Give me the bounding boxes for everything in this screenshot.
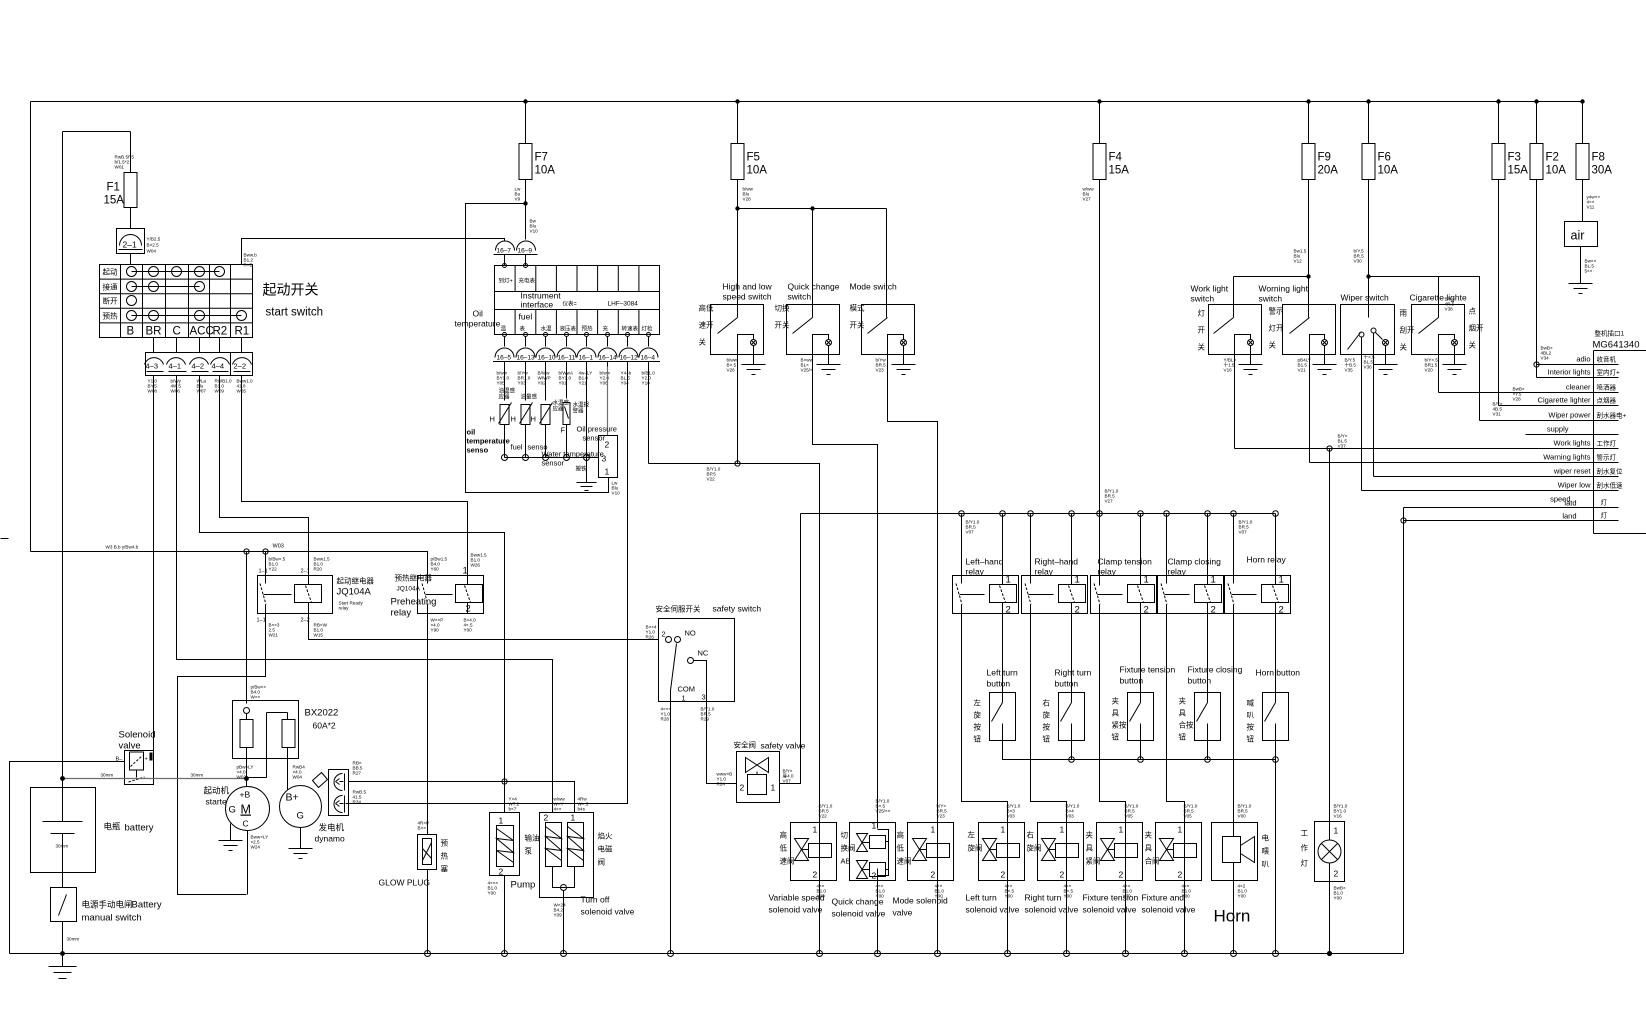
svg-text:电磁: 电磁 — [598, 844, 613, 854]
connector 16-12 — [617, 348, 640, 367]
svg-text:1: 1 — [1001, 825, 1006, 835]
connector 16-11 — [555, 348, 578, 367]
mode switch — [862, 305, 938, 823]
fixture closing button — [1195, 693, 1221, 741]
wire: relay supply bus — [801, 513, 1276, 515]
row wiper reset — [1374, 467, 1624, 477]
svg-text:AB: AB — [841, 857, 851, 866]
wire: speed switch output junction — [649, 464, 820, 823]
wire: battery to ground — [62, 954, 64, 967]
start switch contacts row 4 — [132, 315, 242, 317]
svg-text:Y00: Y00 — [1334, 896, 1343, 901]
svg-text:Left turn: Left turn — [966, 893, 997, 903]
svg-text:R34: R34 — [353, 800, 362, 805]
fuse F4 15A — [1083, 102, 1130, 586]
ground: wiper switch — [1374, 365, 1398, 375]
svg-text:低: 低 — [780, 843, 788, 853]
svg-text:V35: V35 — [1345, 368, 1354, 373]
svg-text:battery: battery — [125, 823, 154, 834]
svg-text:Y00: Y00 — [1005, 894, 1014, 899]
svg-text:V23: V23 — [876, 368, 885, 373]
svg-text:2: 2 — [872, 871, 877, 881]
svg-text:B: B — [127, 326, 135, 338]
svg-text:开关: 开关 — [850, 320, 865, 330]
svg-text:警示: 警示 — [1269, 306, 1285, 316]
svg-text:button: button — [1120, 676, 1144, 686]
svg-text:Wiper switch: Wiper switch — [1341, 293, 1389, 303]
connector 16-4 — [637, 348, 660, 367]
svg-text:Pump: Pump — [511, 880, 536, 891]
wire: 4-2 output to pump — [200, 376, 505, 813]
svg-text:M: M — [241, 803, 251, 817]
svg-text:W24: W24 — [251, 845, 261, 850]
row land 1 — [1404, 498, 1619, 508]
svg-text:10A: 10A — [535, 165, 556, 177]
safety switch — [659, 619, 735, 703]
svg-text:F9: F9 — [1318, 152, 1331, 164]
svg-text:F2: F2 — [1546, 152, 1559, 164]
start switch contacts row 1 — [132, 271, 220, 273]
right-hand relay — [1022, 514, 1088, 616]
svg-text:B××: B×× — [418, 826, 427, 831]
svg-text:Y00: Y00 — [488, 891, 497, 896]
wire: dynamo B+ sense to pump net — [349, 781, 505, 783]
svg-text:油温感: 油温感 — [499, 387, 516, 395]
row cleaner — [1439, 383, 1619, 393]
mode solenoid valve — [908, 823, 954, 954]
fixture tension button — [1128, 693, 1154, 741]
svg-text:1: 1 — [1144, 575, 1149, 586]
svg-text:valve: valve — [119, 741, 141, 752]
svg-text:Y00: Y00 — [935, 894, 944, 899]
svg-text:喷洒器: 喷洒器 — [1597, 383, 1617, 392]
svg-text:Y22: Y22 — [269, 567, 278, 572]
svg-text:solenoid valve: solenoid valve — [769, 905, 823, 915]
svg-text:2–1: 2–1 — [123, 240, 137, 250]
node: relay bus taps — [959, 511, 1279, 517]
fuse F8 30A — [1576, 102, 1612, 222]
svg-text:speed switch: speed switch — [723, 292, 772, 302]
wire: solenoid valve B- return — [10, 762, 125, 954]
svg-text:16–1: 16–1 — [579, 355, 594, 362]
node: fuse taps on top bus — [523, 99, 1584, 103]
svg-text:Water temperature: Water temperature — [542, 450, 604, 459]
svg-text:MG641340: MG641340 — [1593, 340, 1640, 351]
svg-text:2: 2 — [1075, 605, 1080, 616]
svg-text:表: 表 — [520, 325, 526, 333]
wire: F6 branch to wiper cigarette — [1369, 277, 1480, 421]
svg-text:2: 2 — [1060, 870, 1065, 880]
node: F7 tap junction — [523, 201, 527, 205]
wiper switch — [1341, 305, 1395, 491]
svg-text:supply: supply — [1547, 425, 1569, 434]
svg-text:泵: 泵 — [525, 847, 533, 856]
ground: mode switch — [892, 365, 916, 375]
svg-text:15A: 15A — [104, 195, 125, 207]
svg-text:F8: F8 — [1592, 152, 1605, 164]
svg-text:2: 2 — [1119, 870, 1124, 880]
svg-text:Y/B2.5: Y/B2.5 — [147, 237, 161, 242]
svg-text:16–10: 16–10 — [538, 355, 556, 362]
svg-text:具: 具 — [1086, 844, 1094, 853]
svg-text:Warning lights: Warning lights — [1543, 453, 1590, 462]
svg-text:2–2: 2–2 — [234, 362, 247, 371]
svg-text:+B: +B — [240, 790, 251, 800]
svg-text:starte: starte — [206, 797, 228, 807]
svg-text:R28: R28 — [661, 717, 670, 722]
svg-text:Quick change: Quick change — [788, 282, 840, 292]
svg-text:B×2.5: B×2.5 — [147, 243, 160, 248]
svg-text:V38: V38 — [1445, 307, 1454, 312]
svg-text:工作灯: 工作灯 — [1597, 439, 1617, 448]
svg-text:H: H — [490, 415, 495, 424]
svg-text:2: 2 — [813, 870, 818, 880]
horn — [1212, 823, 1258, 954]
svg-text:发电机: 发电机 — [319, 823, 345, 833]
svg-text:16–11: 16–11 — [558, 355, 576, 362]
svg-text:sensor: sensor — [583, 434, 606, 443]
svg-text:LHF–3084: LHF–3084 — [608, 301, 639, 308]
svg-text:Wiper power: Wiper power — [1548, 411, 1591, 420]
svg-text:合按: 合按 — [1179, 720, 1195, 730]
svg-text:1: 1 — [463, 566, 468, 577]
dynamo output connectors — [329, 770, 349, 816]
svg-text:灯开: 灯开 — [1269, 323, 1285, 333]
ground: work light switch — [1239, 365, 1263, 375]
svg-text:adio: adio — [1576, 355, 1590, 364]
svg-text:V31: V31 — [1493, 412, 1502, 417]
relay JQ104A start relay — [257, 552, 333, 624]
start switch table — [100, 265, 253, 338]
svg-text:V22: V22 — [819, 814, 828, 819]
svg-text:速阀: 速阀 — [780, 857, 795, 866]
svg-text:W04: W04 — [147, 249, 157, 254]
svg-text:Oil: Oil — [473, 309, 484, 319]
svg-text:预热继电器: 预热继电器 — [395, 573, 433, 583]
svg-text:2: 2 — [931, 870, 936, 880]
svg-text:start switch: start switch — [266, 307, 324, 319]
wire: 4-4 output to relay JQ104A coil — [220, 376, 309, 576]
svg-text:开: 开 — [1198, 326, 1206, 335]
wire: F5 distribution line — [738, 209, 887, 318]
svg-text:油量感: 油量感 — [521, 393, 538, 401]
wire: 4-1 output to turn-off solenoid — [177, 376, 553, 813]
svg-text:室内灯+: 室内灯+ — [1597, 368, 1621, 377]
connector block MG641340 — [1594, 351, 1646, 534]
svg-text:V16: V16 — [1224, 368, 1233, 373]
fuse F7 10A — [515, 102, 556, 240]
svg-text:1: 1 — [1178, 825, 1183, 835]
svg-text:relay: relay — [391, 608, 412, 619]
svg-text:1: 1 — [605, 467, 610, 477]
svg-text:G: G — [297, 811, 304, 822]
svg-text:右: 右 — [1043, 698, 1051, 708]
horn button — [1263, 693, 1289, 741]
right turn button — [1059, 693, 1085, 741]
water temp switch element — [561, 367, 590, 458]
svg-text:30A: 30A — [1592, 165, 1613, 177]
svg-text:10A: 10A — [1378, 165, 1399, 177]
row radio — [1534, 346, 1619, 378]
svg-text:latd: latd — [1564, 499, 1576, 508]
svg-text:F7: F7 — [535, 152, 548, 164]
ground: cigarette lighter switch — [1443, 365, 1467, 375]
svg-text:夹: 夹 — [1145, 830, 1153, 840]
svg-text:预: 预 — [441, 838, 449, 848]
svg-text:temperature: temperature — [455, 319, 501, 329]
svg-text:切: 切 — [841, 831, 849, 840]
fuse block BX2022 60A*2 — [233, 701, 299, 790]
svg-text:V10: V10 — [612, 491, 621, 496]
svg-text:V16: V16 — [1334, 814, 1343, 819]
svg-text:solenoid valve: solenoid valve — [1142, 905, 1196, 915]
svg-text:15A: 15A — [1109, 165, 1130, 177]
svg-text:solenoid valve: solenoid valve — [832, 909, 886, 919]
svg-text:V07: V07 — [966, 530, 975, 535]
svg-text:V21: V21 — [1298, 368, 1307, 373]
svg-text:1: 1 — [1006, 575, 1011, 586]
fuse F6 10A — [1354, 102, 1399, 318]
svg-text:V03: V03 — [1066, 814, 1075, 819]
svg-text:10A: 10A — [747, 165, 768, 177]
wire: 16-12 to dynamo charge indicator — [346, 367, 628, 804]
svg-text:Interior lights: Interior lights — [1548, 368, 1591, 377]
svg-text:左: 左 — [974, 698, 982, 708]
svg-text:V11: V11 — [1587, 205, 1595, 210]
svg-text:safety switch: safety switch — [713, 604, 762, 614]
wire: start relay contact to starter C — [178, 614, 266, 895]
svg-text:模式: 模式 — [850, 303, 865, 313]
svg-text:作: 作 — [1301, 843, 1309, 853]
svg-text:B+: B+ — [286, 792, 299, 804]
svg-text:G: G — [229, 805, 236, 816]
svg-text:Y06: Y06 — [600, 381, 609, 386]
wire: starter feed riser — [246, 552, 248, 704]
svg-text:高低: 高低 — [699, 303, 714, 313]
svg-text:Y90: Y90 — [431, 628, 440, 633]
svg-text:Preheating: Preheating — [391, 597, 437, 608]
svg-text:Solenoid: Solenoid — [119, 730, 156, 741]
svg-text:R24: R24 — [717, 782, 726, 787]
node: valve returns on bottom bus — [817, 951, 1333, 957]
svg-text:air: air — [1571, 229, 1585, 243]
svg-text:按: 按 — [1043, 722, 1051, 732]
wire: pump net to turn-off 1 — [505, 782, 575, 813]
svg-text:Y00: Y00 — [1238, 894, 1247, 899]
svg-text:BX2022: BX2022 — [305, 708, 339, 719]
wire: land riser to bottom bus — [1403, 508, 1405, 954]
quick change switch — [787, 305, 878, 823]
svg-text:Right turn: Right turn — [1055, 668, 1092, 678]
wire: safety valve to relay bus riser — [780, 514, 801, 784]
svg-text:仪表=: 仪表= — [563, 300, 577, 308]
fuel sensor — [511, 367, 538, 458]
wire: battery positive feed (gray) — [63, 778, 247, 780]
svg-text:夹: 夹 — [1179, 696, 1187, 706]
ground: air unit — [1569, 284, 1593, 294]
svg-text:安全伺服开关: 安全伺服开关 — [656, 604, 701, 614]
svg-text:水温: 水温 — [541, 325, 553, 333]
svg-text:V03: V03 — [1007, 814, 1016, 819]
row work lights — [1235, 434, 1619, 452]
svg-text:solenoid valve: solenoid valve — [581, 907, 635, 917]
svg-text:16–12: 16–12 — [620, 355, 638, 362]
svg-text:W04: W04 — [293, 775, 303, 780]
svg-text:搬铁: 搬铁 — [576, 465, 588, 473]
water temperature sensor element — [531, 367, 570, 458]
svg-text:叭: 叭 — [1262, 860, 1270, 869]
wire: button common to ground bus — [1275, 760, 1277, 954]
svg-text:预热: 预热 — [582, 325, 594, 333]
svg-text:旋阀: 旋阀 — [968, 843, 983, 853]
starter motor M — [226, 779, 270, 895]
svg-text:30mm: 30mm — [67, 937, 80, 942]
svg-text:W06: W06 — [171, 389, 181, 394]
svg-text:夹: 夹 — [1112, 696, 1120, 706]
svg-text:Y03: Y03 — [518, 381, 527, 386]
svg-text:阀: 阀 — [598, 858, 606, 867]
wire: F7 branch to sensors common — [466, 204, 609, 493]
svg-text:valve: valve — [893, 908, 913, 918]
instrument interface box — [455, 264, 660, 337]
svg-text:Fixture and: Fixture and — [1142, 893, 1185, 903]
oil pressure sensor — [577, 425, 621, 496]
svg-text:V05: V05 — [1125, 814, 1134, 819]
svg-text:按: 按 — [974, 722, 982, 732]
svg-text:W26: W26 — [471, 563, 481, 568]
connector 16-5 — [493, 348, 516, 367]
svg-text:2: 2 — [1211, 605, 1216, 616]
instrument pins top — [503, 264, 507, 268]
svg-text:1: 1 — [813, 825, 818, 835]
svg-text:W07: W07 — [197, 389, 207, 394]
svg-text:钮: 钮 — [1043, 734, 1051, 744]
svg-text:输油: 输油 — [525, 833, 540, 843]
svg-text:Cigarette lighter: Cigarette lighter — [1538, 396, 1591, 405]
quick change solenoid valve — [850, 821, 896, 954]
svg-text:JQ104A: JQ104A — [337, 587, 372, 598]
svg-text:Mode switch: Mode switch — [850, 282, 898, 292]
wire code labels under sensor connectors — [497, 371, 656, 386]
node: bottom bus taps — [425, 951, 674, 957]
svg-text:2: 2 — [1144, 605, 1149, 616]
svg-text:30mm: 30mm — [191, 773, 204, 778]
svg-text:relay: relay — [1035, 567, 1054, 577]
fuse F9 20A — [1294, 102, 1339, 318]
svg-text:旋: 旋 — [1043, 710, 1051, 720]
svg-text:relay: relay — [966, 567, 985, 577]
svg-text:1: 1 — [571, 813, 576, 823]
wire: 4-3 output to solenoid valve — [153, 376, 155, 761]
svg-text:换阀: 换阀 — [841, 843, 856, 853]
svg-text:2: 2 — [499, 867, 504, 877]
svg-text:Oil pressure: Oil pressure — [577, 425, 617, 434]
svg-text:关: 关 — [1269, 340, 1277, 350]
svg-text:关: 关 — [1400, 342, 1408, 352]
svg-text:oil: oil — [467, 428, 476, 437]
svg-text:警器: 警器 — [573, 407, 585, 415]
svg-text:2: 2 — [1006, 605, 1011, 616]
solenoid valve (fuel cut) — [116, 751, 154, 785]
svg-text:Y00: Y00 — [464, 628, 473, 633]
svg-text:Y60: Y60 — [431, 567, 440, 572]
svg-text:Y00: Y00 — [817, 894, 826, 899]
svg-text:relay: relay — [1168, 567, 1187, 577]
svg-text:JQ104A: JQ104A — [397, 586, 421, 593]
svg-text:fuel: fuel — [511, 443, 523, 452]
svg-text:1: 1 — [1075, 575, 1080, 586]
svg-text:button: button — [1055, 679, 1079, 689]
svg-text:电瓶: 电瓶 — [104, 822, 122, 832]
svg-text:关: 关 — [699, 337, 707, 347]
svg-text:高: 高 — [780, 830, 788, 840]
ground: battery — [49, 967, 77, 979]
svg-text:V22: V22 — [707, 477, 716, 482]
svg-text:W08: W08 — [148, 389, 158, 394]
svg-text:solenoid valve: solenoid valve — [966, 905, 1020, 915]
svg-text:High and low: High and low — [723, 282, 773, 292]
svg-text:Horn button: Horn button — [1256, 668, 1301, 678]
svg-text:V25/×: V25/× — [801, 368, 813, 373]
svg-text:开关: 开关 — [775, 320, 790, 330]
row wiper low speed — [1362, 481, 1624, 504]
fixture closing solenoid valve — [1156, 823, 1202, 954]
svg-text:速开: 速开 — [699, 321, 714, 330]
svg-text:1: 1 — [872, 821, 877, 831]
svg-text:C: C — [173, 326, 181, 338]
wire: 2-2 output to preheating relay coil — [242, 376, 468, 576]
svg-text:V07: V07 — [783, 779, 792, 784]
svg-text:Worning light: Worning light — [1259, 284, 1309, 294]
row warning lights — [1310, 453, 1619, 463]
svg-text:V28: V28 — [743, 197, 752, 202]
svg-text:紧按: 紧按 — [1112, 720, 1128, 730]
wire: R1 to instrument 16-7 feed — [242, 239, 505, 265]
svg-text:应器: 应器 — [553, 405, 565, 413]
svg-text:旋阀: 旋阀 — [1027, 843, 1042, 853]
dynamo pulley mark — [313, 773, 328, 788]
warning light switch — [1283, 305, 1336, 463]
svg-text:收音机: 收音机 — [1597, 355, 1617, 364]
glow plug — [418, 821, 437, 954]
svg-text:BR: BR — [146, 326, 162, 338]
wires: instrument pins to sensor connectors — [505, 337, 649, 347]
left turn solenoid valve — [979, 823, 1025, 954]
svg-text:Y09: Y09 — [554, 913, 563, 918]
svg-text:灯: 灯 — [1198, 308, 1206, 318]
svg-text:V12: V12 — [1294, 259, 1303, 264]
svg-text:具: 具 — [1112, 709, 1120, 718]
svg-text:W03: W03 — [273, 544, 284, 550]
svg-text:V25/××: V25/×× — [876, 809, 891, 814]
svg-text:具: 具 — [1179, 709, 1187, 718]
svg-text:F: F — [561, 426, 566, 435]
svg-text:关: 关 — [1198, 342, 1206, 352]
svg-text:刮开: 刮开 — [1400, 325, 1416, 335]
svg-text:16–4: 16–4 — [641, 355, 656, 362]
svg-text:起动机: 起动机 — [204, 786, 230, 796]
svg-text:充电表: 充电表 — [519, 277, 536, 285]
svg-text:具: 具 — [1145, 844, 1153, 853]
svg-text:1: 1 — [1211, 575, 1216, 586]
svg-text:Battery: Battery — [132, 900, 162, 911]
svg-text:2: 2 — [544, 813, 549, 823]
dynamo — [280, 748, 322, 849]
svg-text:点: 点 — [1469, 307, 1477, 316]
fuse F5 10A — [731, 102, 767, 318]
wire: work lamp feed from work lights row — [1329, 449, 1331, 822]
svg-text:Left–hand: Left–hand — [966, 557, 1004, 567]
